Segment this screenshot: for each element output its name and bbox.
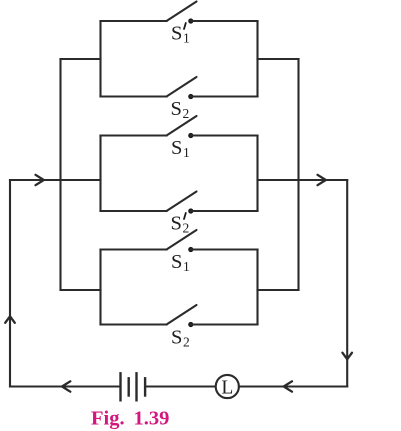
svg-text:1: 1 <box>183 259 190 274</box>
wire: pair-1 left edge <box>99 21 101 97</box>
switch S1 (pair-2) blade <box>167 116 197 136</box>
label S2 (pair-3) <box>171 327 190 350</box>
svg-text:Fig.: Fig. <box>91 408 125 430</box>
switch S2 (pair-1) blade <box>167 77 197 97</box>
arrow: current arrow bottom-right (left) <box>284 381 292 391</box>
switch S2 (pair-3) blade <box>167 305 197 325</box>
wire: pair-3 right feed <box>258 289 299 291</box>
switch S1' contact dot <box>188 18 193 23</box>
switch S2' contact dot <box>188 208 193 213</box>
wire: switch S2' right lead <box>191 210 258 212</box>
wire: pair-1 left feed <box>61 58 101 60</box>
wire: switch S1 (pair-2) left lead <box>101 134 167 136</box>
wire: pair-2 right feed to outer right <box>258 179 348 181</box>
wire: switch S1' right lead <box>191 20 258 22</box>
wire: bottom left segment to battery <box>10 385 119 387</box>
wire: pair-2 right edge <box>256 136 258 212</box>
switch S1 (pair-2) contact dot <box>188 133 193 138</box>
wire: switch S2 (pair-1) left lead <box>101 95 167 97</box>
wire: outer right vertical <box>346 180 348 387</box>
arrow: current arrow bottom-left (left) <box>62 381 70 391</box>
switch S2 (pair-1) contact dot <box>188 94 193 99</box>
switch S1 (pair-3) contact dot <box>188 247 193 252</box>
battery: right short plate <box>144 378 146 395</box>
label S2' <box>171 213 190 236</box>
svg-text:1.39: 1.39 <box>134 408 170 430</box>
arrow: current arrow on outer left (up) <box>5 316 15 323</box>
svg-text:S: S <box>171 213 182 235</box>
battery: left short plate <box>127 378 129 395</box>
wire: switch S2 (pair-3) left lead <box>101 323 167 325</box>
label S1' <box>171 23 190 46</box>
wire: pair-3 left edge <box>99 250 101 325</box>
wire: switch S1 (pair-2) right lead <box>191 134 258 136</box>
wire: switch S2' left lead <box>101 210 167 212</box>
lamp L <box>216 375 239 398</box>
wire: inner right bus joining pair-1 and pair-3 <box>297 59 299 290</box>
caption Fig. 1.39 <box>91 408 169 430</box>
battery: left long plate <box>119 373 121 400</box>
wire: pair-2 feed from node A <box>10 179 101 181</box>
wire: switch S1 (pair-3) right lead <box>191 248 258 250</box>
wire: left bus joining pair-1 and pair-3 <box>59 59 61 290</box>
arrow: current arrow into pair-2 (right) <box>36 175 44 185</box>
wire: switch S1 (pair-3) left lead <box>101 248 167 250</box>
wire: outer left vertical <box>9 180 11 387</box>
wire: pair-1 right edge <box>256 21 258 97</box>
svg-text:L: L <box>221 377 233 398</box>
switch S2' blade <box>167 192 197 212</box>
svg-text:1: 1 <box>183 31 190 46</box>
svg-text:S: S <box>171 327 182 349</box>
wire: switch S1' left lead <box>101 20 167 22</box>
wire: lamp to outer right <box>239 385 347 387</box>
svg-text:2: 2 <box>183 106 190 121</box>
battery: right long plate <box>135 373 137 400</box>
svg-text:1: 1 <box>183 145 190 160</box>
switch S2 (pair-3) contact dot <box>188 322 193 327</box>
wire: pair-3 left feed <box>61 289 101 291</box>
wire: pair-2 left edge <box>99 136 101 212</box>
wire: battery to lamp <box>146 385 216 387</box>
wire: pair-1 right feed <box>258 58 299 60</box>
label S1 (pair-2) <box>171 137 190 160</box>
label S2 (pair-1) <box>171 98 190 121</box>
arrow: current arrow toward outer right (right) <box>318 175 326 185</box>
svg-text:2: 2 <box>183 335 190 350</box>
svg-text:S: S <box>171 251 182 273</box>
svg-text:S: S <box>171 98 182 120</box>
switch S1' blade <box>167 2 197 22</box>
wire: switch S2 (pair-1) right lead <box>191 95 258 97</box>
wire: switch S2 (pair-3) right lead <box>191 323 258 325</box>
svg-text:S: S <box>171 137 182 159</box>
arrow: current arrow on outer right (down) <box>342 353 352 360</box>
svg-text:S: S <box>171 23 182 45</box>
switch S1 (pair-3) blade <box>167 230 197 250</box>
svg-text:2: 2 <box>183 221 190 236</box>
wire: pair-3 right edge <box>256 250 258 325</box>
label S1 (pair-3) <box>171 251 190 274</box>
